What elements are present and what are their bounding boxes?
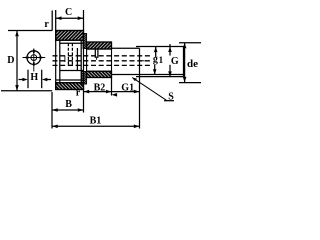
svg-text:r: r [76,88,81,99]
svg-text:g: g [153,54,158,65]
svg-text:B2: B2 [94,83,106,94]
svg-text:de: de [187,58,198,70]
svg-text:B: B [65,99,72,110]
svg-text:S: S [168,92,174,103]
svg-text:B1: B1 [90,116,102,127]
svg-text:G: G [171,56,179,67]
svg-text:G1: G1 [121,83,134,94]
svg-text:H: H [30,72,38,83]
svg-text:C: C [65,7,72,18]
svg-text:r: r [44,19,49,30]
svg-text:1: 1 [159,55,164,65]
svg-text:D: D [7,55,14,66]
